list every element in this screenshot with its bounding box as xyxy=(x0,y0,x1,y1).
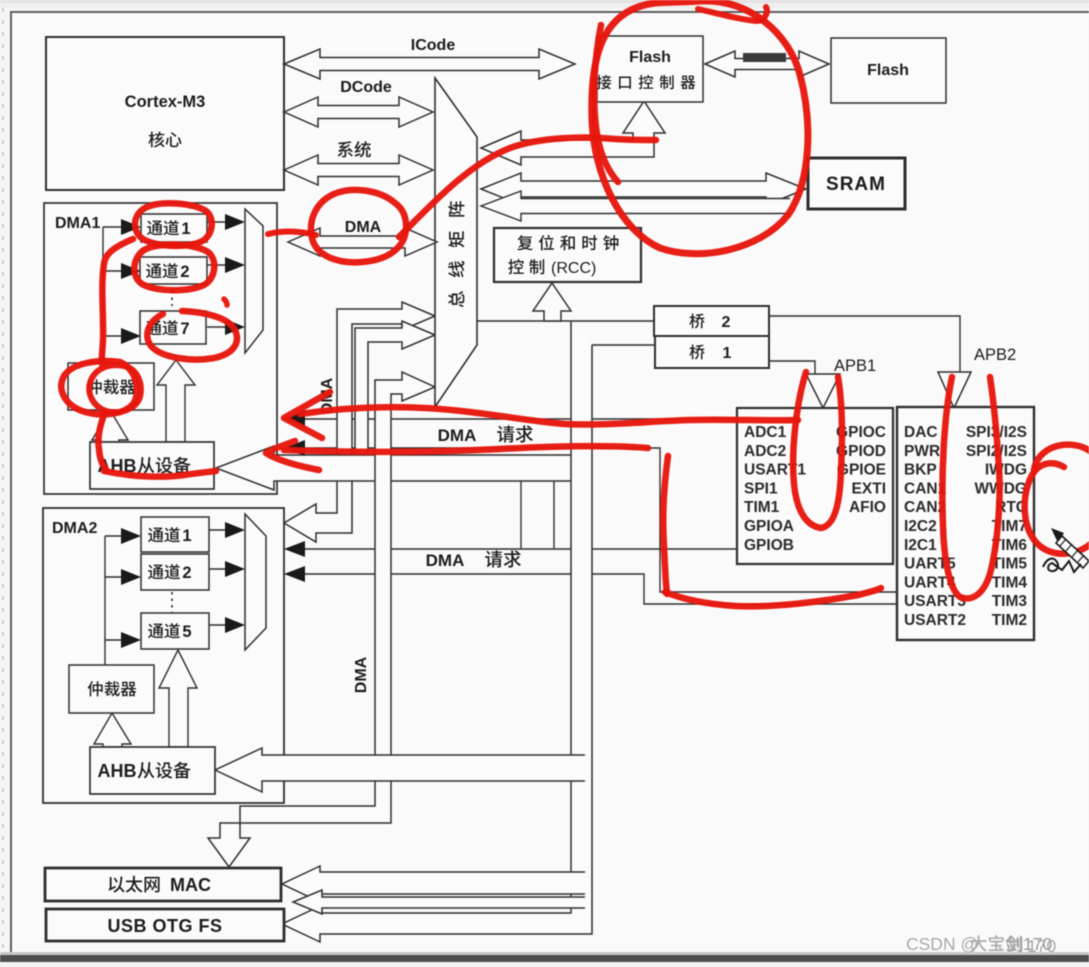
svg-text:USB OTG FS: USB OTG FS xyxy=(107,916,222,936)
svg-text:ICode: ICode xyxy=(411,37,456,54)
svg-text:BKP: BKP xyxy=(904,462,937,479)
svg-text:DAC: DAC xyxy=(904,424,938,441)
svg-text:1: 1 xyxy=(723,345,732,362)
svg-text:SPI1: SPI1 xyxy=(744,480,778,497)
svg-text:Flash: Flash xyxy=(629,49,671,66)
svg-text:1: 1 xyxy=(182,527,191,545)
svg-text:APB2: APB2 xyxy=(974,346,1016,364)
svg-text:AFIO: AFIO xyxy=(849,499,886,516)
svg-text:DMA2: DMA2 xyxy=(52,520,97,537)
svg-text:IWDG: IWDG xyxy=(985,462,1027,479)
svg-text:TIM3: TIM3 xyxy=(992,593,1028,610)
svg-text:DMA: DMA xyxy=(353,656,370,693)
svg-text:SRAM: SRAM xyxy=(826,174,886,195)
svg-text:ADC2: ADC2 xyxy=(744,443,786,460)
svg-text:DCode: DCode xyxy=(340,79,392,96)
svg-text:GPIOA: GPIOA xyxy=(744,518,794,535)
svg-text:DMA1: DMA1 xyxy=(55,215,100,232)
svg-text:Cortex-M3: Cortex-M3 xyxy=(125,93,206,111)
svg-text:1: 1 xyxy=(181,220,190,238)
svg-text:GPIOB: GPIOB xyxy=(744,537,794,554)
svg-text:TIM1: TIM1 xyxy=(744,499,780,516)
svg-text:Flash: Flash xyxy=(867,62,909,79)
svg-text:EXTI: EXTI xyxy=(852,480,886,497)
svg-text:2: 2 xyxy=(722,314,731,331)
svg-text:DMA: DMA xyxy=(438,426,477,445)
svg-text:CSDN @: CSDN @ xyxy=(906,934,978,954)
svg-text:TIM2: TIM2 xyxy=(992,612,1027,629)
svg-text:USART2: USART2 xyxy=(904,612,966,629)
svg-text:TIM5: TIM5 xyxy=(992,556,1028,573)
svg-text:5: 5 xyxy=(182,623,191,641)
svg-text:AHB: AHB xyxy=(98,761,137,781)
svg-text:I2C2: I2C2 xyxy=(904,518,937,535)
svg-text:DMA: DMA xyxy=(345,219,382,236)
svg-text:USART1: USART1 xyxy=(744,462,806,479)
svg-text:APB1: APB1 xyxy=(834,357,876,375)
svg-text:MAC: MAC xyxy=(170,875,211,895)
svg-text:TIM4: TIM4 xyxy=(992,574,1028,591)
svg-text:I2C1: I2C1 xyxy=(904,537,937,554)
svg-text:7: 7 xyxy=(180,320,189,338)
svg-text:2: 2 xyxy=(180,263,189,281)
svg-text:ADC1: ADC1 xyxy=(744,424,787,441)
svg-text:(RCC): (RCC) xyxy=(551,260,596,277)
svg-text:DMA: DMA xyxy=(426,551,465,570)
svg-text:2: 2 xyxy=(182,564,191,582)
svg-text:PWR: PWR xyxy=(904,443,940,460)
